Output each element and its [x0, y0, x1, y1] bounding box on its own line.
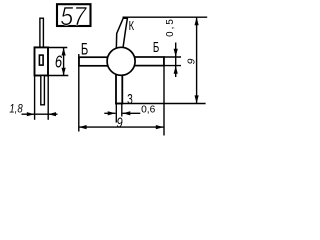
extension line from body right edge	[47, 76, 49, 120]
front view: bottom lead (З)	[116, 70, 122, 104]
dimension line 1,8	[22, 113, 58, 115]
dim 6: arrow down	[62, 68, 66, 76]
arrowhead 1,8 left	[27, 112, 35, 116]
arrowhead 1,8 right	[48, 112, 56, 116]
side view: crystal slot	[39, 55, 43, 65]
side view: bottom pin	[41, 76, 45, 105]
svg-text:57: 57	[60, 3, 87, 31]
dim 6: dimension line	[63, 48, 65, 76]
bottom dim 9: right arrowhead (pointing right)	[156, 125, 164, 129]
svg-text:К: К	[129, 20, 135, 34]
right dim 9: bottom extension line	[115, 103, 205, 105]
dim 6: arrow up	[62, 48, 66, 56]
side view: body	[35, 47, 49, 75]
left lead tip extension line (vertical)	[78, 54, 80, 132]
side view: top pin	[40, 18, 44, 48]
right lead edge extension lines (for 0,5)	[164, 56, 181, 58]
right dim 9: arrow down	[195, 95, 199, 103]
front view: left lead (Б)	[79, 57, 110, 66]
right dim 9: arrow up	[195, 17, 199, 25]
svg-text:З: З	[127, 91, 133, 108]
dim 0,5: dimension line	[175, 43, 177, 78]
svg-text:Б: Б	[153, 39, 159, 56]
bottom dim 9: left arrowhead (pointing left)	[79, 125, 87, 129]
svg-text:6: 6	[55, 52, 62, 72]
svg-text:9: 9	[117, 114, 123, 131]
front view: can circle	[107, 47, 135, 75]
dim 0,6: right arrowhead	[123, 111, 131, 115]
dim 0,6: right arrow line	[123, 112, 141, 114]
figure number box 57	[57, 3, 91, 31]
dim 0,6: left arrowhead	[108, 111, 116, 115]
extension line from body left edge	[34, 76, 36, 120]
dim 6: top extension line	[48, 47, 67, 49]
dim 0,5: arrow up (below lead)	[174, 66, 178, 74]
svg-text:Б: Б	[81, 39, 88, 58]
top extension line from К lead tip	[123, 16, 208, 18]
svg-text:0,5: 0,5	[165, 17, 176, 37]
dim 0,6: left arrow line	[104, 112, 115, 114]
dim 0,5: arrow down (above lead)	[174, 49, 178, 57]
front view: right lead (Б)	[133, 57, 164, 66]
dim 6: bottom extension line	[48, 75, 68, 77]
bottom dim 9: dimension line	[79, 126, 164, 128]
front view: top lead (К), bent	[116, 18, 127, 50]
svg-text:9: 9	[185, 58, 197, 64]
right dim 9: dimension line	[196, 17, 198, 103]
svg-text:1,8: 1,8	[9, 103, 22, 116]
bottom lead edge extension lines (for 0,6)	[115, 104, 117, 122]
svg-text:0,6: 0,6	[141, 105, 155, 116]
right lead tip extension line (vertical)	[163, 57, 165, 136]
